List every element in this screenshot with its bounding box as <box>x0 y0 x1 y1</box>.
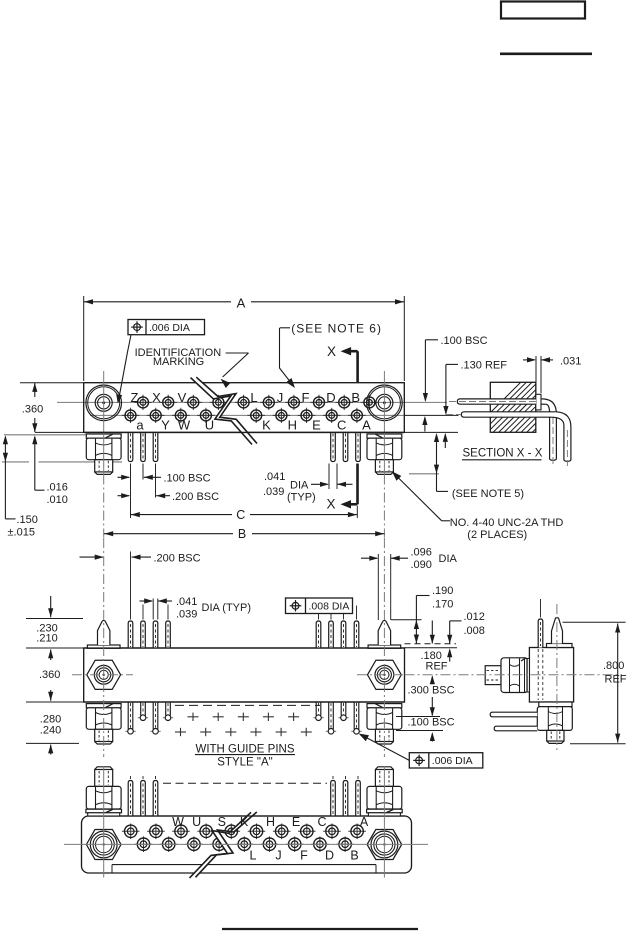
middle view horizontal centreline <box>72 674 133 676</box>
dim .190/.170 <box>414 585 454 644</box>
bottom view vertical centrelines <box>103 766 105 878</box>
view1 top-row centreline <box>57 401 447 403</box>
pin tip level line (right) <box>391 619 422 621</box>
dim B <box>104 527 385 541</box>
svg-text:.012: .012 <box>464 611 485 623</box>
side view lower nut <box>537 707 572 731</box>
inverted nut assy right (bottom view) <box>367 767 403 816</box>
contact top row 9 <box>361 395 379 410</box>
contact bottom-view top row 7 <box>298 824 316 840</box>
hex standoff right (middle view) <box>368 660 402 689</box>
position crosses (middle view) <box>175 713 312 737</box>
svg-text:REF: REF <box>426 660 448 672</box>
break band view1 <box>191 377 258 444</box>
contact bottom-view bottom row 5 <box>261 836 279 852</box>
contact top row 7 <box>310 395 328 410</box>
thread note leader <box>442 520 450 522</box>
tail pin left 130.5 <box>128 432 133 461</box>
.041 extension lines on pin 155.5 <box>152 599 154 620</box>
side view vertical centreline <box>556 604 558 750</box>
svg-text:.210: .210 <box>36 633 57 645</box>
svg-text:(TYP): (TYP) <box>287 492 316 504</box>
guide pin right (middle view) <box>368 620 401 648</box>
view1 hole vertical centrelines <box>103 371 105 475</box>
svg-text:.170: .170 <box>432 599 453 611</box>
section cutting line bottom <box>356 464 359 505</box>
view1 bottom-row centreline <box>90 414 404 416</box>
right mounting nut assy (view1) <box>367 434 402 474</box>
svg-text:.041: .041 <box>264 471 285 483</box>
svg-text:DIA (TYP): DIA (TYP) <box>202 602 252 614</box>
svg-text:K: K <box>262 418 271 433</box>
svg-text:.200 BSC: .200 BSC <box>154 552 201 564</box>
svg-text:.130 REF: .130 REF <box>461 360 508 372</box>
svg-text:J: J <box>275 849 281 863</box>
dim .031 <box>523 356 581 394</box>
flange top dashed line <box>405 643 457 645</box>
svg-text:X: X <box>327 344 336 359</box>
svg-text:.041: .041 <box>176 596 197 608</box>
svg-text:H: H <box>288 418 297 433</box>
bottom view pins right <box>331 776 336 816</box>
svg-text:.360: .360 <box>22 404 43 416</box>
pin extension lines (view1 dims) <box>130 464 132 519</box>
recess line (bottom view) <box>112 864 376 866</box>
top right rule <box>500 52 592 55</box>
contact bottom-view bottom row 2 <box>185 836 203 852</box>
contact top row 0 <box>134 395 152 410</box>
svg-text:F: F <box>300 849 308 863</box>
svg-text:X: X <box>326 496 335 511</box>
view1 bottom-row extension (right, solid) <box>404 414 458 416</box>
svg-text:J: J <box>277 390 284 405</box>
contact top row 8 <box>335 395 353 410</box>
mounting nut assy below (middle view, left) <box>86 704 121 744</box>
svg-text:L: L <box>250 849 257 863</box>
contact bottom-view top row 0 <box>122 824 140 840</box>
dim C <box>131 508 358 522</box>
svg-text:STYLE "A": STYLE "A" <box>217 756 272 768</box>
svg-text:C: C <box>337 418 346 433</box>
bottom view horizontal centreline <box>64 843 428 845</box>
side view washers <box>525 659 527 693</box>
B/C extension centrelines <box>103 475 105 538</box>
svg-text:A: A <box>360 815 369 829</box>
dim .130 REF <box>443 360 508 449</box>
section pin top row <box>449 399 556 464</box>
dim .041/.039 DIA TYP (middle) <box>140 596 252 621</box>
svg-text:.190: .190 <box>432 585 453 597</box>
dim .230/.210 <box>36 596 57 660</box>
svg-text:W: W <box>172 815 184 829</box>
hex standoff left (middle view) <box>87 660 121 689</box>
svg-text:.010: .010 <box>47 494 68 506</box>
contact bottom-view bottom row 3 <box>210 836 228 852</box>
fcf .008 DIA <box>286 598 353 614</box>
svg-text:(SEE NOTE 6): (SEE NOTE 6) <box>291 322 382 336</box>
svg-text:X: X <box>152 390 161 405</box>
svg-text:D: D <box>325 849 334 863</box>
leader from fcf to body <box>119 335 132 401</box>
dim A <box>84 296 405 382</box>
svg-text:B: B <box>351 390 360 405</box>
svg-text:.800: .800 <box>603 660 624 672</box>
svg-text:(2 PLACES): (2 PLACES) <box>467 529 527 541</box>
dim .280/.240 <box>40 714 61 755</box>
nut bottom extension line <box>2 461 29 463</box>
side view lower stud <box>547 730 564 743</box>
svg-text:H: H <box>266 815 275 829</box>
upper pins left group (middle view) <box>128 552 133 649</box>
inverted nut assy left (bottom view) <box>86 767 122 816</box>
contact bottom-view bottom row 6 <box>286 836 304 852</box>
contact bottom-view top row 3 <box>197 824 215 840</box>
body edges re-stroke (middle view) <box>84 647 405 649</box>
middle view vertical centrelines <box>103 538 105 757</box>
side view screw head <box>485 666 501 685</box>
lower pins left group (middle view) <box>125 702 135 734</box>
svg-text:.031: .031 <box>560 356 581 368</box>
dim .800 REF <box>563 622 627 744</box>
svg-text:Y: Y <box>161 418 170 433</box>
contact bottom-view top row 6 <box>273 824 291 840</box>
extra arrow at 432 <box>430 621 435 644</box>
svg-text:C: C <box>236 508 245 522</box>
side view horizontal centreline <box>405 674 623 676</box>
contact bottom row 9 <box>348 408 366 423</box>
side view guide pin up <box>552 617 563 643</box>
contact bottom row 8 <box>323 408 341 423</box>
svg-text:REF: REF <box>605 674 627 686</box>
side view nut <box>501 658 528 693</box>
dim .096/.090 DIA <box>361 547 458 621</box>
side view left pin bar 2 <box>494 726 537 731</box>
svg-text:.090: .090 <box>411 559 432 571</box>
svg-text:U: U <box>192 815 201 829</box>
svg-text:F: F <box>302 390 310 405</box>
svg-text:a: a <box>136 418 144 433</box>
contact bottom row 5 <box>247 408 265 423</box>
svg-text:D: D <box>326 390 335 405</box>
contact bottom row 2 <box>172 408 190 423</box>
dim .012/.008 <box>447 611 485 662</box>
tail pin right 333.0 <box>331 432 336 461</box>
phantom dashes (middle view broken area) <box>175 704 320 706</box>
svg-text:A: A <box>237 296 246 311</box>
dim .100 BSC (view1) <box>118 472 211 484</box>
body top edge re-stroke (bottom view) <box>88 815 405 817</box>
dim .360 (view1) <box>22 383 43 432</box>
svg-text:.016: .016 <box>47 482 68 494</box>
connector body (front view) <box>84 383 405 433</box>
svg-text:A: A <box>362 418 371 433</box>
right mounting hole <box>367 385 403 421</box>
dim .150 +/-.015 <box>3 435 38 538</box>
svg-text:K: K <box>240 815 249 829</box>
dim .016/.010 <box>32 435 68 506</box>
section block hatching <box>466 379 628 437</box>
connector body (middle view) <box>84 648 405 702</box>
guide pin left (middle view) <box>87 620 120 648</box>
svg-text:.100 BSC: .100 BSC <box>164 472 211 484</box>
svg-text:E: E <box>312 418 321 433</box>
tail pin left 155.5 <box>153 432 158 461</box>
svg-text:NO. 4-40 UNC-2A THD: NO. 4-40 UNC-2A THD <box>450 517 564 529</box>
see note 5 leader dim <box>434 433 524 500</box>
phantom dashes (bottom view) <box>163 782 327 784</box>
bottom view pins left <box>128 776 133 816</box>
revision box (top right) <box>501 2 585 19</box>
svg-text:WITH GUIDE PINS: WITH GUIDE PINS <box>195 743 294 755</box>
hidden lines in block <box>537 649 539 700</box>
dim .300 BSC <box>408 675 455 716</box>
contact bottom row 3 <box>197 408 215 423</box>
pin bar extension lines <box>396 716 440 718</box>
svg-text:L: L <box>250 390 257 405</box>
hex standoff right (bottom view) <box>367 830 402 860</box>
svg-text:B: B <box>238 527 246 541</box>
svg-text:.150: .150 <box>17 514 38 526</box>
identification leader <box>226 352 249 354</box>
see note 6 leader <box>280 327 290 329</box>
side view lower washer <box>539 702 572 707</box>
dim .100 BSC (rows) <box>422 335 487 432</box>
contact bottom-view bottom row 4 <box>236 836 254 852</box>
contact tab (.031) <box>536 394 541 410</box>
upper pins right group (middle view) <box>316 606 321 649</box>
side view left pin bar 1 <box>490 712 537 717</box>
svg-text:DIA: DIA <box>290 480 309 492</box>
break band bottom view <box>190 812 257 878</box>
contact bottom-view top row 1 <box>147 824 165 840</box>
svg-text:.100 BSC: .100 BSC <box>441 335 488 347</box>
contact bottom-view bottom row 0 <box>135 836 153 852</box>
contact bottom-view bottom row 7 <box>311 836 329 852</box>
svg-text:(SEE NOTE 5): (SEE NOTE 5) <box>452 488 524 500</box>
contact top row 4 <box>235 395 253 410</box>
dim .200 BSC (view1) <box>118 491 220 503</box>
contact bottom row 1 <box>147 408 165 423</box>
contact bottom-view top row 2 <box>172 824 190 840</box>
contact top row 5 <box>260 395 278 410</box>
washer line extension (left) <box>4 434 122 436</box>
connector body (bottom view) <box>82 816 412 873</box>
contact bottom-view top row 5 <box>248 824 266 840</box>
svg-text:±.015: ±.015 <box>8 527 35 539</box>
dim .041/.039 DIA TYP (view1) <box>263 471 353 504</box>
left mounting hole <box>86 385 122 421</box>
svg-text:W: W <box>178 418 191 433</box>
svg-text:MARKING: MARKING <box>153 356 204 368</box>
side view contact pin up <box>538 599 543 648</box>
svg-text:B: B <box>350 849 358 863</box>
dim .100 BSC (side) <box>408 717 455 742</box>
section cutting line top <box>356 351 359 382</box>
svg-text:.360: .360 <box>39 669 60 681</box>
svg-text:.100 BSC: .100 BSC <box>408 717 455 729</box>
svg-text:SECTION X - X: SECTION X - X <box>463 448 543 460</box>
lower pins right group (middle view) <box>313 702 323 721</box>
svg-text:.039: .039 <box>263 486 284 498</box>
contact top row 2 <box>185 395 203 410</box>
tail pin right 358.0 <box>356 432 361 461</box>
left mounting nut assy (view1) <box>86 434 121 474</box>
body top extension (right) <box>405 647 458 649</box>
svg-text:Z: Z <box>131 390 139 405</box>
svg-text:.039: .039 <box>176 608 197 620</box>
contact bottom row 0 <box>122 408 140 423</box>
tail pin left 143.0 <box>141 432 146 461</box>
svg-text:.006 DIA: .006 DIA <box>432 755 473 767</box>
body top edge extension (left, for .360) <box>20 382 84 384</box>
hex standoff left (bottom view) <box>86 830 121 860</box>
svg-text:.006 DIA: .006 DIA <box>149 322 190 334</box>
side view block <box>529 648 573 703</box>
mounting nut assy below (middle view, right) <box>367 704 402 744</box>
svg-text:E: E <box>292 815 300 829</box>
contact top row 3 <box>210 395 228 410</box>
contact bottom row 6 <box>273 408 291 423</box>
contact top row 6 <box>285 395 303 410</box>
svg-text:DIA: DIA <box>439 553 458 565</box>
svg-text:.200 BSC: .200 BSC <box>172 491 219 503</box>
dim .200 BSC (middle) <box>80 552 201 564</box>
svg-text:.240: .240 <box>40 724 61 736</box>
contact bottom-view top row 8 <box>323 824 341 840</box>
stud bottom extension (right) <box>409 473 439 475</box>
contact bottom-view bottom row 1 <box>160 836 178 852</box>
guide pin flange (side) <box>547 644 573 648</box>
contact bottom row 7 <box>298 408 316 423</box>
svg-text:U: U <box>205 418 214 433</box>
fcf leader to pin <box>361 735 410 761</box>
section pin bottom row <box>446 412 571 466</box>
svg-text:.008 DIA: .008 DIA <box>309 601 350 613</box>
contact top row 1 <box>159 395 177 410</box>
body bottom edge extensions <box>35 431 84 433</box>
tail pin right 345.5 <box>343 432 348 461</box>
svg-text:.096: .096 <box>411 547 432 559</box>
contact bottom-view bottom row 8 <box>336 836 354 852</box>
svg-text:S: S <box>218 815 226 829</box>
svg-text:V: V <box>178 390 187 405</box>
fcf .006 DIA (view1) <box>128 320 205 335</box>
bottom centre rule <box>222 928 418 930</box>
contact bottom-view top row 4 <box>223 824 241 840</box>
middle view left dimension lines <box>26 618 83 620</box>
svg-text:.300 BSC: .300 BSC <box>408 685 455 697</box>
svg-text:.008: .008 <box>464 625 485 637</box>
contact bottom-view top row 9 <box>348 824 366 840</box>
body bottom edge re-stroke <box>84 431 405 433</box>
fcf .006 DIA (bottom) <box>409 753 483 768</box>
svg-text:C: C <box>317 815 326 829</box>
